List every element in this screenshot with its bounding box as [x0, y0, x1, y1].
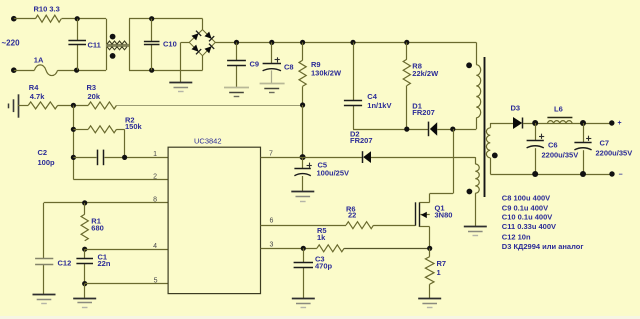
- wire R3 to Vcc column: [117, 105, 303, 107]
- bridge rectifier outline: [189, 30, 215, 56]
- svg-text:2200u/35V: 2200u/35V: [542, 151, 579, 160]
- wire bridge minus to ground: [181, 42, 189, 44]
- choke L1 winding bar: [106, 44, 129, 47]
- node output minus terminal: [609, 171, 614, 176]
- node AC input N terminal: [11, 67, 17, 73]
- wire pin6 to R6: [261, 225, 347, 227]
- resistor R5: [317, 245, 344, 252]
- diode D1: [430, 122, 437, 136]
- capacitor C8: [271, 42, 273, 63]
- svg-text:UC3842: UC3842: [194, 136, 222, 145]
- bridge diode top-left: [192, 33, 199, 40]
- battery symbol mains plus: [8, 104, 10, 109]
- resistor R10: [36, 15, 62, 22]
- node C2-R2 junction: [122, 155, 127, 160]
- svg-text:1A: 1A: [34, 55, 44, 64]
- svg-text:−: −: [619, 171, 623, 178]
- svg-text:2200u/35V: 2200u/35V: [596, 148, 633, 157]
- node C10 top junction: [149, 16, 154, 21]
- svg-text:C10: C10: [163, 40, 177, 49]
- node AC input L terminal: [11, 16, 17, 22]
- inductor L6 bar: [547, 117, 572, 119]
- ground C9: [224, 87, 249, 89]
- capacitor C8 plus: [275, 59, 280, 61]
- resistor R2: [88, 126, 116, 133]
- svg-text:22k/2W: 22k/2W: [412, 69, 439, 78]
- svg-text:2: 2: [153, 173, 157, 180]
- svg-text:C12: C12: [58, 258, 72, 267]
- transistor Q1 channel bar: [419, 202, 421, 227]
- resistor R3: [88, 102, 116, 109]
- ground aux winding: [464, 226, 487, 228]
- bridge diode bottom-right: [205, 46, 212, 53]
- svg-text:7: 7: [269, 151, 273, 158]
- node C2 left junction: [71, 155, 76, 160]
- node C11 bottom junction: [74, 68, 79, 73]
- wire pin2 run: [73, 179, 168, 181]
- svg-text:680: 680: [91, 223, 104, 232]
- capacitor C7: [583, 123, 585, 143]
- svg-text:R9: R9: [311, 60, 321, 69]
- node R1 top junction: [82, 200, 87, 205]
- svg-text:D3: D3: [511, 104, 521, 113]
- wire D1 to primary: [437, 129, 476, 131]
- node source junction: [427, 246, 432, 251]
- node output plus terminal: [609, 120, 614, 125]
- svg-text:C2: C2: [38, 148, 48, 157]
- node rail C8: [269, 40, 274, 45]
- capacitor C9: [236, 42, 238, 60]
- svg-text:100p: 100p: [38, 158, 56, 167]
- node rail C4: [350, 40, 355, 45]
- ground R7: [418, 298, 441, 300]
- svg-text:6: 6: [270, 217, 274, 224]
- op-amp U1 UC3842 body: [168, 147, 260, 293]
- resistor R7: [429, 248, 431, 256]
- wire loop2 bottom: [129, 70, 203, 72]
- wire R6 to gate: [374, 225, 416, 227]
- wire pin7 to Vcc: [261, 157, 303, 159]
- svg-text:C8 100u 400V: C8 100u 400V: [502, 194, 550, 203]
- svg-text:C11 0.33u 400V: C11 0.33u 400V: [502, 222, 556, 231]
- svg-text:C4: C4: [367, 92, 377, 101]
- svg-text:~220: ~220: [2, 39, 21, 48]
- wire into bridge bottom: [202, 56, 204, 70]
- wire into bridge top: [202, 19, 204, 30]
- svg-text:1k: 1k: [317, 233, 326, 242]
- ground C5: [291, 191, 314, 193]
- svg-text:D3 КД2994 или аналог: D3 КД2994 или аналог: [502, 242, 584, 251]
- wire R4 to R3: [58, 105, 88, 107]
- svg-text:R7: R7: [437, 259, 447, 268]
- wire Vcc to D2: [303, 157, 362, 159]
- wire D2 to aux winding: [371, 157, 475, 159]
- transformer T1 core: [484, 57, 486, 197]
- wire comp vertical: [73, 105, 75, 179]
- svg-text:+: +: [618, 120, 622, 127]
- wire loop1 right vertical: [106, 19, 108, 70]
- svg-text:22: 22: [348, 211, 356, 220]
- bridge diode top-right: [205, 32, 212, 39]
- node C7 bottom: [580, 171, 586, 177]
- transistor Q1 gate bar: [415, 202, 417, 225]
- transistor Q1 body arrow: [420, 214, 429, 216]
- wire AC bottom to fuse: [14, 70, 35, 72]
- svg-text:150k: 150k: [125, 122, 143, 131]
- node C10 bottom junction: [149, 68, 154, 73]
- node R9 bottom junction: [300, 102, 305, 107]
- node C11 top junction: [75, 16, 80, 21]
- wire pin4 run: [85, 249, 168, 251]
- svg-text:4: 4: [153, 243, 157, 250]
- svg-text:22n: 22n: [98, 259, 111, 268]
- ground C8: [260, 83, 285, 85]
- wire R5 to source: [344, 248, 430, 250]
- capacitor C3: [303, 248, 305, 262]
- node Vcc C5 junction: [300, 154, 306, 160]
- svg-text:100u/25V: 100u/25V: [317, 168, 350, 177]
- svg-text:8: 8: [153, 197, 157, 204]
- wire R10 to loop1 corner: [62, 18, 107, 20]
- wire fuse to loop1 bottom corner: [58, 70, 106, 72]
- resistor R1: [84, 203, 86, 214]
- node pin5 junction: [82, 281, 87, 286]
- diode D2: [363, 151, 371, 163]
- svg-text:470p: 470p: [315, 262, 333, 271]
- wire C1 to ground: [84, 284, 86, 298]
- ground bridge: [169, 82, 192, 84]
- ground C3: [292, 298, 315, 300]
- svg-text:20k: 20k: [88, 92, 101, 101]
- wire output bottom rail: [490, 174, 612, 176]
- svg-text:130k/2W: 130k/2W: [311, 69, 342, 78]
- transformer T1 primary polarity dot: [466, 62, 472, 68]
- transistor Q1 source stub: [419, 226, 429, 228]
- svg-text:C7: C7: [600, 139, 610, 148]
- svg-text:5: 5: [154, 277, 158, 284]
- node rail R9: [300, 40, 305, 45]
- wire drain from primary: [453, 129, 455, 193]
- fuse F1 1A: [34, 65, 57, 76]
- diode D3: [513, 117, 522, 129]
- wire pin3 to R5: [261, 248, 317, 250]
- node C7 top: [580, 120, 586, 126]
- node R4-R3 junction: [71, 103, 76, 108]
- capacitor C6: [535, 123, 537, 141]
- svg-text:1n/1kV: 1n/1kV: [367, 101, 391, 110]
- resistor R8: [406, 42, 408, 59]
- svg-text:C12 10n: C12 10n: [502, 232, 531, 241]
- svg-text:C6: C6: [548, 141, 558, 150]
- capacitor C5 plus: [307, 165, 312, 167]
- wire D3 to plus terminal: [523, 123, 612, 125]
- wire secondary to D3: [490, 123, 513, 125]
- svg-text:1: 1: [153, 151, 157, 158]
- choke L1 lower hatch: [107, 47, 127, 50]
- node C6 top: [532, 120, 538, 126]
- border bottom light strip: [0, 316, 640, 319]
- svg-text:C8: C8: [284, 63, 294, 72]
- wire R2 right down: [117, 129, 125, 131]
- node R2 left junction: [71, 127, 76, 132]
- svg-text:3N80: 3N80: [435, 210, 453, 219]
- wire battery to R4: [18, 105, 28, 107]
- svg-text:L6: L6: [554, 105, 563, 114]
- svg-text:3: 3: [270, 241, 274, 248]
- choke L1 upper hatch: [107, 41, 127, 44]
- transformer T1 aux polarity dot: [467, 189, 473, 195]
- svg-text:R10 3.3: R10 3.3: [34, 5, 60, 14]
- svg-text:C9 0.1u 400V: C9 0.1u 400V: [502, 203, 548, 212]
- node R1 bottom junction: [82, 247, 87, 252]
- wire snubber bottom: [353, 129, 428, 131]
- capacitor C2: [73, 157, 96, 159]
- node C6 bottom: [532, 171, 538, 177]
- inductor L6: [547, 121, 572, 124]
- svg-text:4.7k: 4.7k: [30, 92, 45, 101]
- node C3 junction: [301, 246, 306, 251]
- capacitor C7 plus: [586, 138, 591, 140]
- wire pin5 run: [85, 283, 168, 285]
- svg-text:FR207: FR207: [350, 136, 373, 145]
- bridge diode bottom-left: [192, 45, 199, 52]
- svg-text:1: 1: [437, 268, 441, 277]
- capacitor C12: [43, 203, 45, 259]
- capacitor C1: [84, 249, 86, 258]
- choke L1 polarity dot top: [110, 34, 116, 40]
- node R8 bottom: [404, 127, 409, 132]
- wire loop2 left vertical: [129, 19, 131, 70]
- svg-text:C10 0.1u 400V: C10 0.1u 400V: [502, 213, 552, 222]
- transformer T1 primary: [476, 42, 478, 64]
- choke L1 polarity dot bottom: [110, 53, 116, 59]
- wire B+ rail: [215, 42, 476, 44]
- transformer T1 secondary polarity dot: [492, 153, 498, 159]
- capacitor C5: [302, 157, 304, 168]
- node drain-primary junction: [450, 127, 455, 132]
- capacitor C11: [77, 19, 79, 41]
- svg-text:FR207: FR207: [412, 108, 435, 117]
- transformer T1 aux winding: [475, 157, 477, 164]
- capacitor C6 plus: [539, 136, 544, 138]
- resistor R9: [302, 42, 304, 60]
- transistor Q1 drain stub: [419, 202, 429, 204]
- capacitor C4: [353, 42, 355, 100]
- svg-text:C11: C11: [88, 41, 101, 50]
- svg-text:C9: C9: [250, 59, 260, 68]
- wire loop2 top: [129, 18, 203, 20]
- wire AC top to R10: [14, 18, 36, 20]
- wire pin8 run: [44, 202, 168, 204]
- node rail R8: [404, 40, 409, 45]
- node rail C9: [234, 40, 239, 45]
- resistor R6: [346, 222, 374, 229]
- transformer T1 secondary: [490, 123, 492, 128]
- wire Vcc vertical: [302, 105, 304, 157]
- capacitor C10: [151, 19, 153, 42]
- resistor R4: [28, 102, 58, 109]
- ground C1: [73, 298, 96, 300]
- ground C12: [33, 294, 56, 296]
